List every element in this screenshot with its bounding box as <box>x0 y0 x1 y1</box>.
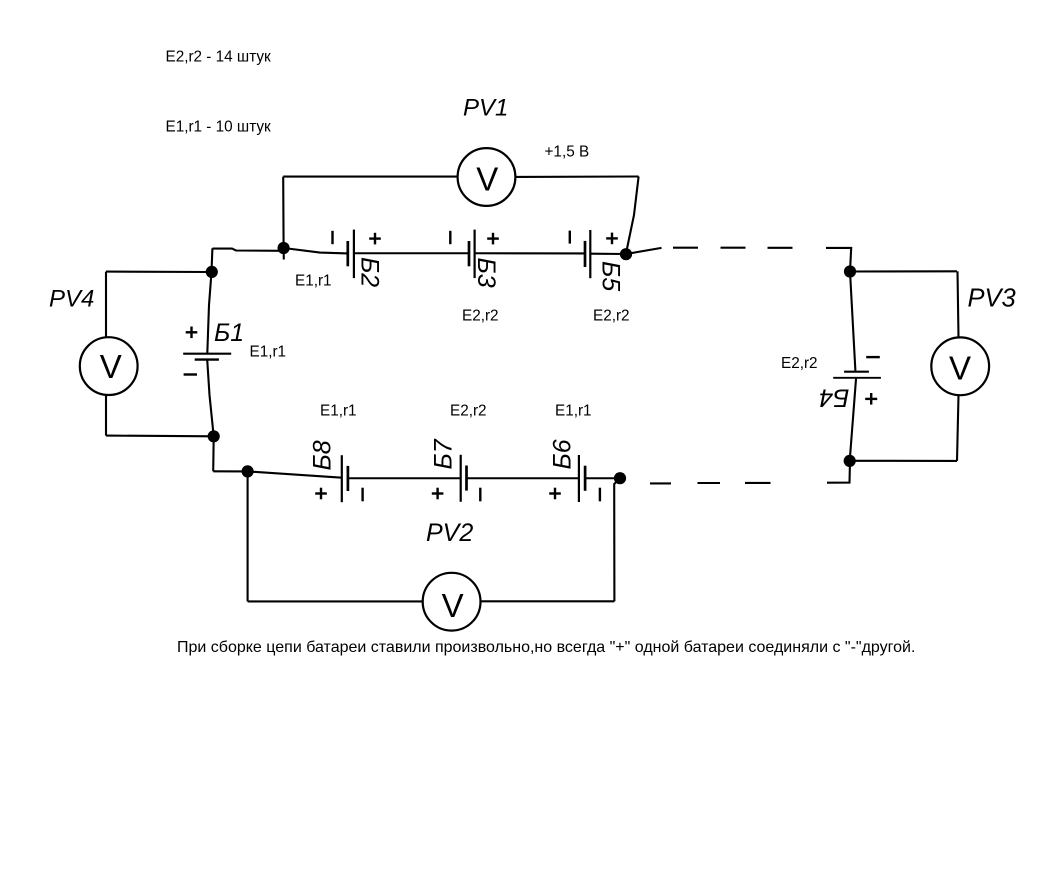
wire PV2 left horizontal <box>248 600 423 602</box>
label - of Б4 <box>866 356 880 358</box>
wire B1 lower lead <box>207 360 214 437</box>
svg-text:PV2: PV2 <box>426 519 473 547</box>
node PV4-bottom junction <box>208 430 220 442</box>
wire PV1 left horizontal <box>283 176 458 178</box>
svg-text:Б8: Б8 <box>309 440 337 470</box>
svg-text:При сборке цепи батареи ставил: При сборке цепи батареи ставили произвол… <box>177 639 915 656</box>
label + of Б8 <box>315 488 327 500</box>
voltmeter PV4 <box>80 337 138 395</box>
wire PV3 bottom vertical <box>957 395 959 461</box>
svg-text:PV4: PV4 <box>49 286 94 313</box>
svg-text:Е2,r2: Е2,r2 <box>450 403 487 420</box>
node PV2-left junction <box>242 465 254 477</box>
label - of Б5 <box>569 231 571 244</box>
wire stub right of row1 junction <box>626 248 662 254</box>
wire PV4 top vertical <box>105 272 107 338</box>
label - of Б3 <box>449 231 451 244</box>
wire PV2 left vertical <box>247 471 249 601</box>
svg-text:Е2,r2: Е2,r2 <box>462 308 499 325</box>
svg-text:+1,5 В: +1,5 В <box>545 143 590 160</box>
label - of Б2 <box>331 231 333 244</box>
wire top-right corner <box>826 248 851 272</box>
wire row1 segment D <box>590 253 626 255</box>
wire PV2 right horizontal <box>481 600 615 602</box>
svg-text:Б3: Б3 <box>472 258 500 288</box>
label - of Б1 <box>184 373 197 375</box>
node row2-right junction <box>614 472 626 484</box>
svg-text:Е2,r2 - 14 штук: Е2,r2 - 14 штук <box>166 49 272 66</box>
label - of Б6 <box>599 488 601 502</box>
svg-text:V: V <box>476 160 498 197</box>
voltmeter PV3 <box>931 337 989 395</box>
wire PV1 right horizontal <box>516 175 639 177</box>
label + of Б5 <box>606 233 618 245</box>
svg-text:PV1: PV1 <box>463 95 508 122</box>
svg-text:Е1,r1: Е1,r1 <box>320 403 357 420</box>
battery Б7 plates <box>461 455 467 502</box>
svg-text:Б5: Б5 <box>597 261 625 291</box>
wire row2 segment A <box>213 470 247 472</box>
label + of Б1 <box>186 327 198 339</box>
wire PV4 bottom horizontal <box>106 435 214 438</box>
svg-text:Б1: Б1 <box>214 319 244 347</box>
label - of Б8 <box>361 488 363 502</box>
label - of Б7 <box>479 488 481 502</box>
svg-text:Б4: Б4 <box>819 384 849 412</box>
wire row1 main segment A <box>284 248 348 253</box>
svg-text:V: V <box>949 349 971 386</box>
wire row2 left corner <box>212 436 215 471</box>
wire PV4 bottom vertical <box>105 395 107 436</box>
label + of Б7 <box>432 488 444 500</box>
wire row1 main segment C <box>475 252 585 254</box>
svg-text:Б7: Б7 <box>429 438 457 469</box>
svg-text:Е2,r2: Е2,r2 <box>593 308 630 325</box>
wire corner to node B1 top <box>210 248 213 272</box>
wire Б4 lower lead <box>850 378 856 461</box>
node PV4-top junction <box>206 266 218 278</box>
wire row2 segment D <box>467 477 579 479</box>
label + of Б6 <box>549 488 561 500</box>
svg-text:Е2,r2: Е2,r2 <box>781 355 818 372</box>
battery Б2 plates <box>348 230 354 279</box>
svg-text:PV3: PV3 <box>968 284 1016 312</box>
wire row2 segment E <box>585 477 620 479</box>
wire PV4 top horizontal <box>106 271 212 273</box>
label + of Б2 <box>369 233 381 245</box>
wire row2 segment C <box>348 477 461 479</box>
wire bottom-right corner <box>827 461 850 483</box>
svg-text:Б6: Б6 <box>548 439 576 469</box>
wire B1 upper lead <box>207 272 211 354</box>
wire PV3 top horizontal <box>850 270 957 272</box>
svg-text:Б2: Б2 <box>356 257 384 287</box>
label + of Б3 <box>487 233 499 245</box>
battery Б1 plates <box>183 354 231 360</box>
battery Б4 plates <box>833 372 881 378</box>
svg-text:Е1,r1 - 10 штук: Е1,r1 - 10 штук <box>166 119 272 136</box>
wire PV1 left vertical <box>282 177 285 260</box>
battery Б6 plates <box>579 455 585 502</box>
svg-text:V: V <box>100 348 122 385</box>
wire top dashed <box>673 247 793 249</box>
svg-text:V: V <box>442 587 464 624</box>
node Б4 bottom junction <box>844 455 856 467</box>
wire Б4 upper lead <box>850 272 855 371</box>
wire PV3 top vertical <box>958 271 959 337</box>
wire PV2 right vertical <box>614 478 620 601</box>
svg-text:Е1,r1: Е1,r1 <box>555 403 592 420</box>
wire PV3 bottom horizontal <box>850 460 957 462</box>
node row1-right junction <box>620 248 632 260</box>
node row1-left junction <box>278 242 290 254</box>
battery Б8 plates <box>342 455 348 502</box>
voltmeter PV2 <box>423 573 481 631</box>
wire bottom dashed <box>650 482 771 485</box>
wire row2 segment B <box>248 471 342 477</box>
battery Б5 plates <box>585 230 590 278</box>
wire row1 left corner <box>212 249 283 251</box>
voltmeter PV1 <box>458 148 516 206</box>
svg-text:Е1,r1: Е1,r1 <box>250 344 287 361</box>
node Б4 top junction <box>844 265 856 277</box>
wire row1 main segment B <box>354 252 469 254</box>
label + of Б4 <box>865 393 877 405</box>
battery Б3 plates <box>469 230 475 279</box>
wire PV1 right slanted <box>626 177 638 253</box>
svg-text:Е1,r1: Е1,r1 <box>295 273 332 290</box>
